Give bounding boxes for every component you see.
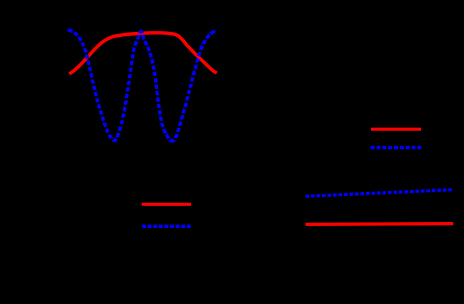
legend red line (bottom-left plot) bbox=[142, 203, 191, 206]
legend blue dashed line (bottom-left plot) bbox=[142, 225, 191, 228]
legend blue dashed line (top-right plot) bbox=[371, 146, 422, 149]
red solid curve (top-left plot) bbox=[69, 33, 217, 74]
legend red line (top-right plot) bbox=[371, 128, 421, 131]
red flat line (bottom-right plot) bbox=[306, 222, 454, 226]
blue dashed oscillating curve (top-left plot) bbox=[69, 30, 215, 141]
blue dashed rising line (bottom-right plot) bbox=[306, 190, 453, 197]
